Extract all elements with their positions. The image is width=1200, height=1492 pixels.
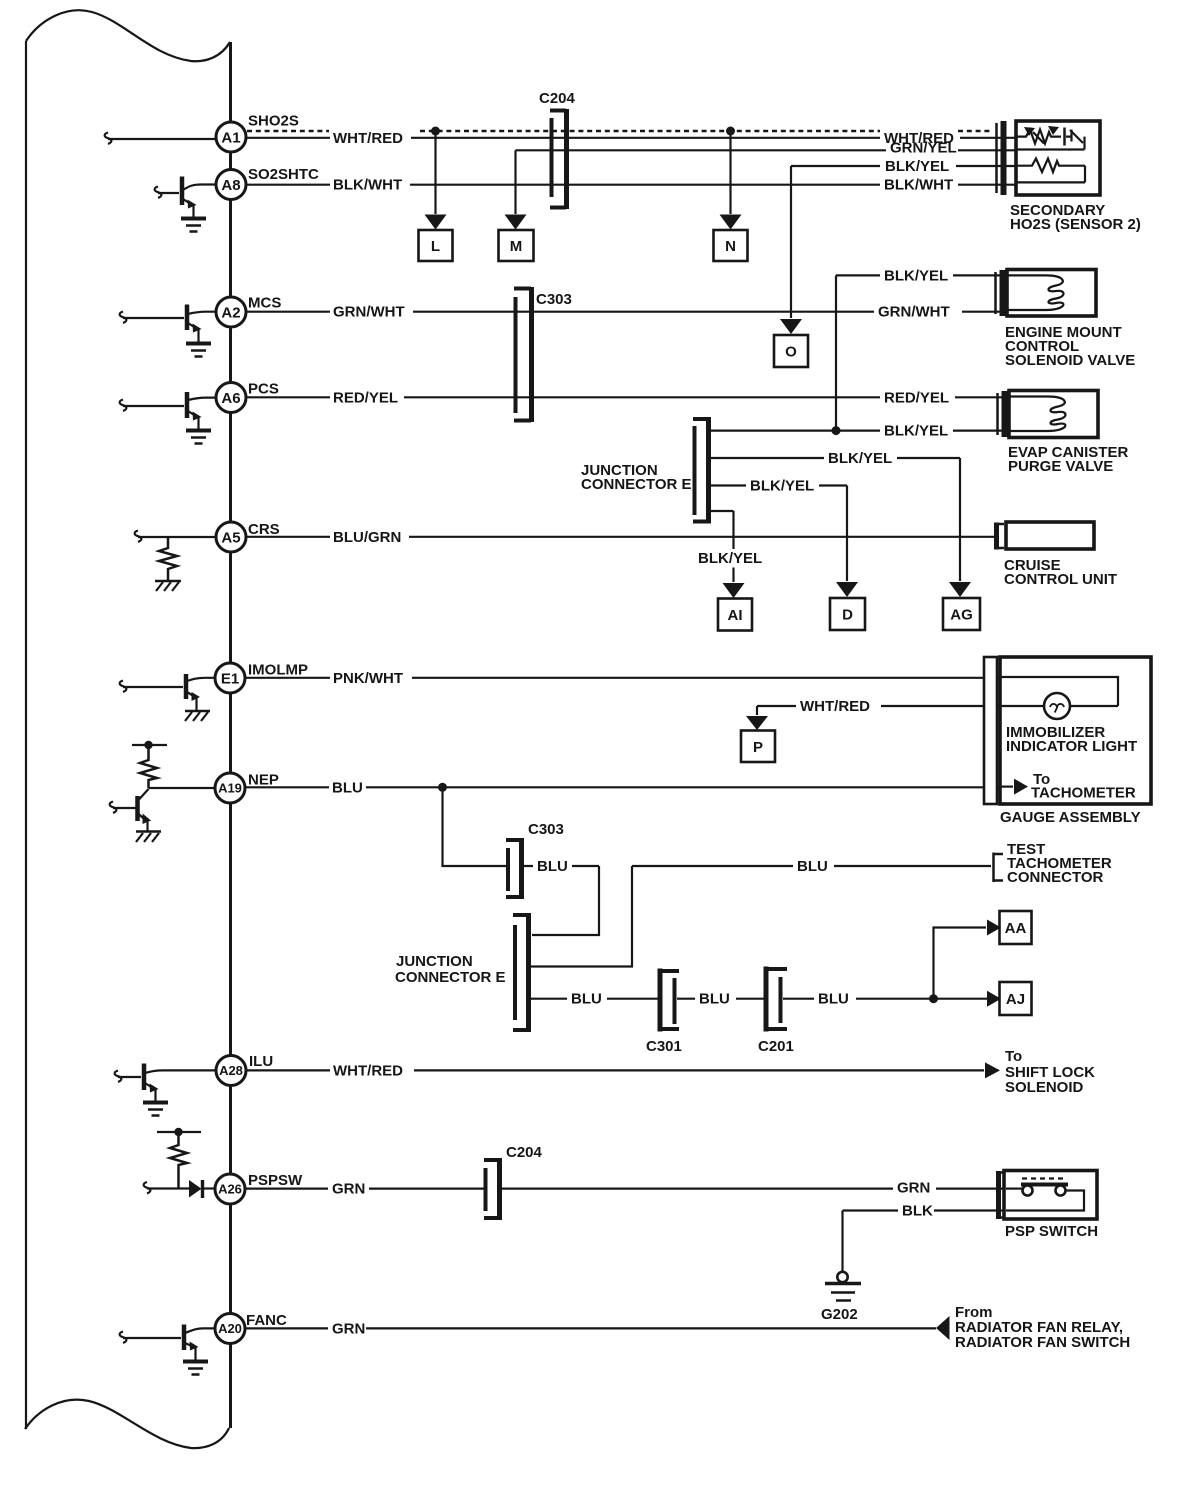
pin E1: [215, 662, 308, 694]
transistor Q3 (PCS driver) at A6: [120, 392, 215, 430]
svg-text:IMOLMP: IMOLMP: [248, 662, 308, 679]
svg-text:FANC: FANC: [246, 1312, 287, 1329]
connector C201: [758, 967, 794, 1056]
svg-text:C201: C201: [758, 1038, 794, 1055]
junction connector E (upper): [693, 417, 709, 524]
svg-text:G202: G202: [821, 1306, 858, 1323]
transistor Q5 (NEP driver) at A19: [110, 789, 151, 831]
arrow into M: [505, 215, 527, 230]
svg-text:A26: A26: [218, 1182, 242, 1197]
wire BLU (connector E lower to C301): [531, 991, 658, 1008]
svg-text:N: N: [725, 238, 736, 255]
node junction dot WHT/RED to L: [431, 127, 440, 136]
wire SHO2S dashed (A1 to sensor): [247, 130, 992, 133]
svg-text:WHT/RED: WHT/RED: [333, 1062, 403, 1079]
connector bracket at cruise control unit: [996, 523, 1004, 550]
svg-text:M: M: [510, 238, 523, 255]
wire BLK/YEL (connector E to AG): [711, 450, 960, 581]
wire WHT/RED solid (A1 to sensor): [247, 130, 1016, 147]
svg-text:BLU: BLU: [537, 858, 568, 875]
svg-text:RADIATOR FAN SWITCH: RADIATOR FAN SWITCH: [955, 1334, 1130, 1351]
svg-text:CONNECTOR E: CONNECTOR E: [581, 476, 692, 493]
transistor Q4 (IMOLMP driver) at E1: [120, 674, 215, 710]
wire BLK/YEL (sensor to O): [791, 158, 1016, 175]
svg-text:D: D: [842, 607, 853, 624]
ground (earth) below Q6: [143, 1103, 168, 1116]
svg-text:BLU: BLU: [699, 991, 730, 1008]
wire BLK/YEL (engine mount valve branch): [836, 267, 1009, 430]
svg-text:E1: E1: [221, 671, 239, 688]
svg-text:BLU: BLU: [571, 991, 602, 1008]
arrow to tachometer inside gauge assembly: [1001, 771, 1136, 802]
svg-text:C301: C301: [646, 1038, 682, 1055]
svg-text:PSPSW: PSPSW: [248, 1172, 303, 1189]
connector C303 (upper): [514, 287, 572, 422]
svg-text:BLK/YEL: BLK/YEL: [884, 423, 948, 440]
device box secondary HO2S: [1016, 121, 1100, 195]
ECM/PCM block left edge: [25, 41, 27, 1429]
svg-text:AJ: AJ: [1006, 991, 1025, 1008]
wire BLK (PSP switch to G202): [843, 1203, 1005, 1273]
svg-text:A1: A1: [221, 130, 240, 147]
pin A2: [216, 295, 281, 328]
arrow into AG: [949, 582, 971, 597]
svg-text:ILU: ILU: [249, 1053, 273, 1070]
wire stub down to O: [790, 166, 792, 318]
wire BLK/YEL (connector E bottom to AI): [698, 511, 762, 582]
svg-text:AI: AI: [728, 607, 743, 624]
wire stub down to N: [729, 131, 731, 214]
svg-text:GRN/WHT: GRN/WHT: [878, 304, 950, 321]
svg-text:BLK/YEL: BLK/YEL: [698, 550, 762, 567]
svg-text:A28: A28: [219, 1063, 243, 1078]
wire GRN/YEL (sensor to M): [516, 139, 1017, 156]
svg-text:PURGE VALVE: PURGE VALVE: [1008, 458, 1113, 475]
wire WHT/RED (gauge assembly to P): [757, 698, 1001, 715]
arrow into AI: [723, 583, 745, 598]
svg-text:CONNECTOR E: CONNECTOR E: [395, 969, 506, 986]
ground (chassis) below R1: [155, 581, 181, 591]
ground G202: [821, 1272, 861, 1323]
ECM/PCM block bottom torn edge: [25, 1400, 229, 1448]
svg-text:TACHOMETER: TACHOMETER: [1031, 785, 1136, 802]
svg-text:SOLENOID VALVE: SOLENOID VALVE: [1005, 352, 1135, 369]
svg-text:JUNCTION: JUNCTION: [396, 953, 473, 970]
wire A19 stub: [149, 787, 216, 789]
terminal box P: [741, 731, 775, 763]
svg-text:BLU: BLU: [332, 779, 363, 796]
wire GRN (A20 from radiator fan relay): [246, 1320, 936, 1337]
label junction connector E (upper): [581, 462, 692, 493]
connector bracket at secondary HO2S: [997, 121, 1004, 195]
arrow to shift lock solenoid: [985, 1062, 1000, 1078]
svg-text:A2: A2: [221, 305, 240, 322]
svg-text:BLK/YEL: BLK/YEL: [884, 267, 948, 284]
wire BLU/GRN (A5 to cruise control unit): [247, 529, 994, 546]
device box gauge assembly: [1000, 657, 1151, 804]
label secondary HO2S: [1010, 202, 1141, 233]
wire BLK/WHT (A8 to sensor): [247, 177, 1016, 194]
ground (earth) below Q1: [181, 219, 206, 232]
arrow into D: [836, 582, 858, 597]
svg-text:GAUGE ASSEMBLY: GAUGE ASSEMBLY: [1000, 809, 1141, 826]
terminal box O: [774, 335, 808, 367]
arrow into N: [720, 215, 742, 230]
svg-text:BLU: BLU: [818, 991, 849, 1008]
svg-text:SO2SHTC: SO2SHTC: [248, 166, 319, 183]
device box EVAP canister purge valve: [1009, 391, 1098, 438]
pin A19: [215, 772, 279, 804]
svg-text:CRS: CRS: [248, 521, 280, 538]
arrow from radiator fan relay: [936, 1316, 950, 1340]
arrow into L: [425, 215, 447, 230]
connector C204 (lower): [484, 1144, 543, 1220]
wire RED/YEL (A6 to EVAP valve): [247, 389, 1011, 406]
resistor R3 (pull-up) at A26: [170, 1132, 187, 1188]
pin A6: [216, 381, 279, 413]
wire PNK/WHT (E1 to gauge assembly): [246, 670, 1001, 687]
svg-text:BLK/WHT: BLK/WHT: [333, 177, 402, 194]
terminal box AA: [1000, 911, 1032, 944]
svg-text:A19: A19: [218, 781, 242, 796]
arrow into AJ: [987, 991, 1001, 1007]
svg-text:BLK/YEL: BLK/YEL: [885, 158, 949, 175]
svg-text:C303: C303: [528, 821, 564, 838]
device box cruise control unit: [1006, 522, 1094, 549]
svg-text:BLK/WHT: BLK/WHT: [884, 177, 953, 194]
connector C301: [646, 969, 682, 1056]
label shift lock solenoid: [1005, 1048, 1095, 1096]
ground (chassis) below Q5: [136, 832, 161, 843]
arrow into AA: [987, 920, 1001, 936]
wire stub down to M: [514, 150, 516, 214]
svg-text:RED/YEL: RED/YEL: [333, 389, 398, 406]
svg-text:A5: A5: [221, 530, 240, 547]
terminal box M: [499, 230, 534, 261]
svg-text:A20: A20: [218, 1321, 242, 1336]
connector bracket at PSP switch: [998, 1171, 1004, 1219]
svg-text:AA: AA: [1005, 920, 1027, 937]
svg-text:PCS: PCS: [248, 381, 279, 398]
ground (chassis) below Q4: [185, 711, 210, 721]
label engine mount valve: [1005, 324, 1135, 369]
wire branch up to AA: [934, 928, 987, 999]
svg-text:BLK: BLK: [902, 1203, 933, 1220]
terminal box L: [419, 230, 453, 261]
transistor Q7 (FANC driver) at A20: [120, 1325, 215, 1362]
wire BLK/YEL (junction connector E to EVAP valve): [711, 423, 1011, 440]
wire A5 stub left: [135, 531, 215, 542]
arrow into O: [780, 319, 802, 334]
immobilizer lamp circuit inside gauge assembly: [1001, 677, 1118, 719]
wire GRN/WHT (A2 to engine mount valve): [247, 304, 1009, 321]
junction connector E (lower): [513, 913, 529, 1032]
svg-text:RED/YEL: RED/YEL: [884, 389, 949, 406]
wire BLK/YEL (connector E to D): [711, 478, 847, 582]
pin A1: [216, 113, 299, 153]
svg-text:SOLENOID: SOLENOID: [1005, 1079, 1084, 1096]
connector C204 (upper): [539, 90, 576, 209]
svg-text:GRN: GRN: [332, 1320, 365, 1337]
svg-text:NEP: NEP: [248, 772, 279, 789]
transistor Q2 (MCS driver) at A2: [120, 305, 215, 344]
svg-text:INDICATOR LIGHT: INDICATOR LIGHT: [1006, 738, 1137, 755]
svg-text:BLK/YEL: BLK/YEL: [828, 450, 892, 467]
svg-text:BLU/GRN: BLU/GRN: [333, 529, 401, 546]
arrow into P: [746, 716, 768, 730]
node junction dot BLU to AA: [929, 994, 938, 1003]
svg-text:To: To: [1005, 1048, 1022, 1065]
connector bracket at EVAP valve: [998, 391, 1005, 437]
wire GRN (A26 to PSP switch): [246, 1180, 1006, 1198]
pin A5: [216, 521, 280, 552]
wire ECM internal bus vertical: [229, 42, 232, 1428]
connector bracket at engine mount valve: [996, 270, 1003, 316]
svg-text:C204: C204: [506, 1144, 543, 1161]
svg-text:A8: A8: [221, 177, 240, 194]
svg-text:MCS: MCS: [248, 295, 281, 312]
svg-text:GRN/YEL: GRN/YEL: [890, 139, 957, 156]
transistor Q6 (ILU driver) at A28: [115, 1064, 215, 1103]
wire BLU (C201 to AA and AJ): [783, 991, 987, 1008]
device box PSP switch: [1004, 1171, 1097, 1220]
wire BLU (A19 to gauge assembly): [246, 779, 1001, 796]
switch contacts inside PSP switch: [1006, 1179, 1084, 1211]
svg-text:PNK/WHT: PNK/WHT: [333, 670, 403, 687]
label immobilizer indicator light: [1006, 724, 1137, 755]
svg-text:GRN: GRN: [332, 1181, 365, 1198]
resistor R2 (pull-up) at A19: [140, 745, 157, 788]
pin A20: [215, 1312, 287, 1344]
ground (earth) below Q7: [183, 1362, 208, 1375]
node junction dot BLU branch: [438, 783, 447, 792]
svg-text:CONNECTOR: CONNECTOR: [1007, 869, 1104, 886]
terminal box AJ: [1000, 982, 1032, 1015]
terminal box AI: [718, 599, 752, 631]
ECM/PCM block top torn edge: [26, 10, 230, 61]
pin A8: [216, 166, 319, 200]
heater resistor inside sensor: [1016, 159, 1085, 183]
resistor R1 at A5: [159, 537, 177, 580]
connector bracket at gauge assembly: [984, 657, 997, 804]
svg-text:WHT/RED: WHT/RED: [333, 130, 403, 147]
wire BLU (C303 to junction connector E lower): [524, 858, 599, 935]
wire stub down to L: [434, 131, 436, 214]
wire A1 stub left: [105, 133, 215, 144]
svg-text:L: L: [431, 238, 440, 255]
label test tachometer connector: [1007, 841, 1112, 886]
device box engine mount control solenoid valve: [1007, 270, 1096, 317]
connector C303 (lower): [506, 821, 564, 899]
terminal box D: [830, 598, 865, 630]
svg-text:C303: C303: [536, 291, 572, 308]
svg-text:P: P: [753, 739, 763, 756]
svg-text:CONTROL UNIT: CONTROL UNIT: [1004, 571, 1117, 588]
wire BLU branch down to C303: [443, 787, 507, 866]
ground (earth) below Q3: [186, 431, 211, 444]
connector bracket test tachometer connector: [993, 853, 1003, 883]
sensing element (variable resistor with arrows) inside sensor: [1016, 126, 1085, 150]
terminal box N: [714, 230, 748, 261]
power supply rail at A26 pull-up: [157, 1128, 201, 1136]
node junction dot BLK/YEL: [832, 426, 841, 435]
wire A26 stub left: [144, 1182, 189, 1193]
svg-text:SHO2S: SHO2S: [248, 113, 299, 130]
transistor Q1 (SO2SHTC driver) at A8: [155, 177, 215, 219]
label EVAP canister purge valve: [1008, 444, 1128, 475]
label junction connector E (lower): [395, 953, 506, 986]
node junction dot WHT/RED to N: [726, 127, 735, 136]
svg-text:GRN/WHT: GRN/WHT: [333, 304, 405, 321]
wire BLU (C301 to C201): [677, 991, 764, 1008]
svg-text:C204: C204: [539, 90, 576, 107]
label cruise control unit: [1004, 557, 1117, 588]
svg-text:PSP SWITCH: PSP SWITCH: [1005, 1223, 1098, 1240]
svg-text:O: O: [785, 344, 797, 361]
svg-text:BLK/YEL: BLK/YEL: [750, 478, 814, 495]
wire BLU (connector E lower to test tachometer connector): [531, 858, 991, 967]
svg-text:AG: AG: [950, 607, 973, 624]
svg-text:A6: A6: [221, 390, 240, 407]
svg-text:HO2S (SENSOR 2): HO2S (SENSOR 2): [1010, 216, 1141, 233]
svg-text:GRN: GRN: [897, 1180, 930, 1197]
svg-text:BLU: BLU: [797, 858, 828, 875]
label radiator fan relay / switch: [955, 1304, 1130, 1351]
diode D1 at A26: [189, 1180, 215, 1198]
power supply rail at A19 pull-up: [132, 741, 167, 749]
terminal box AG: [943, 598, 980, 630]
wire WHT/RED (A28 to shift lock solenoid): [247, 1062, 984, 1079]
pin A28: [216, 1053, 273, 1086]
ground (earth) below Q2: [186, 344, 211, 357]
pin A26: [215, 1172, 303, 1204]
svg-text:WHT/RED: WHT/RED: [800, 698, 870, 715]
